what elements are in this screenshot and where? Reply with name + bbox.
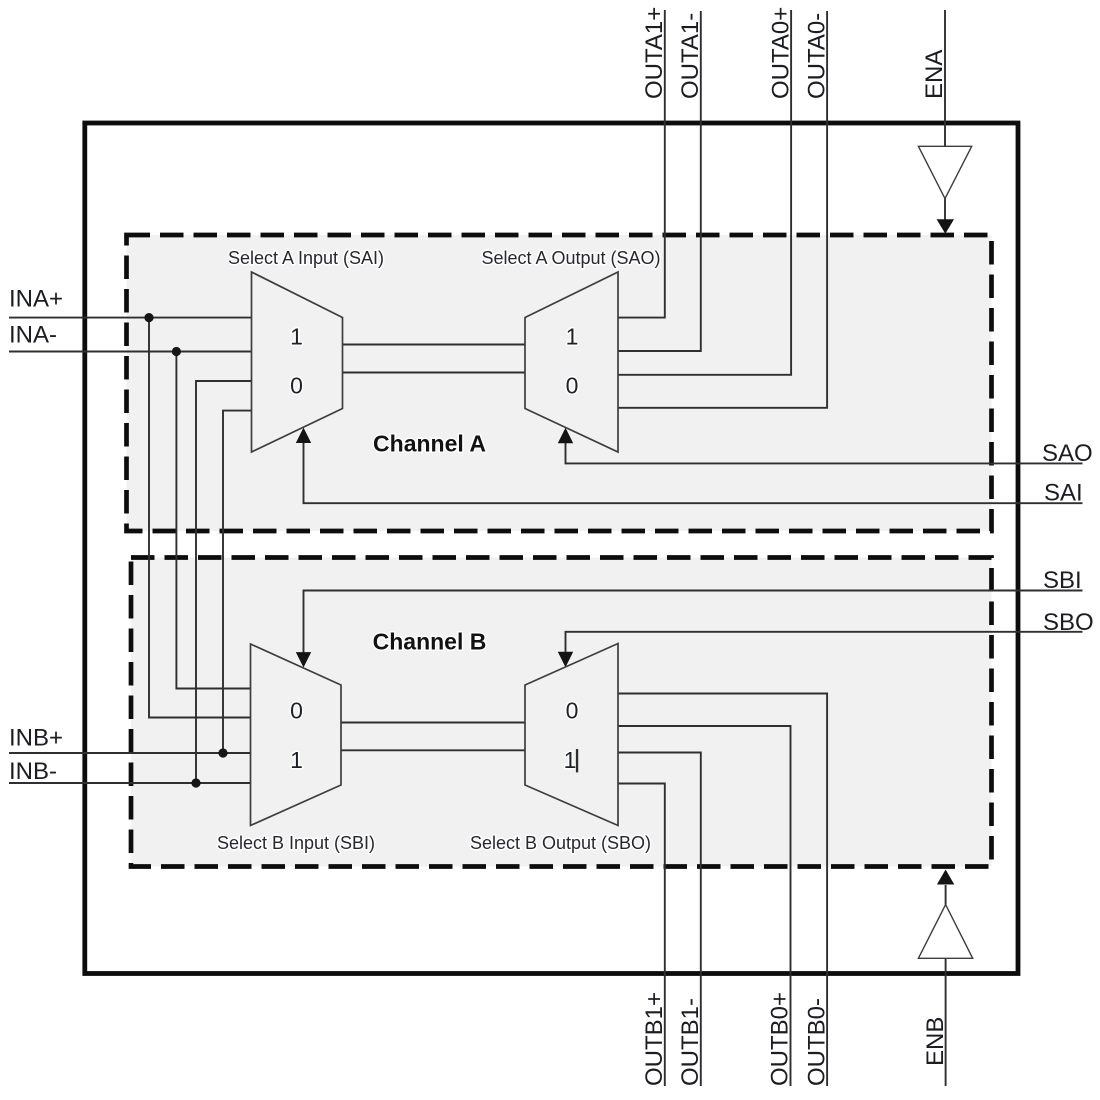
svg-text:1: 1 <box>564 747 577 773</box>
wire INB+ input line <box>9 752 251 754</box>
svg-text:Channel A: Channel A <box>373 431 486 457</box>
arrowhead SBO select <box>558 652 573 667</box>
svg-text:Channel B: Channel B <box>373 629 487 655</box>
outer IC boundary box <box>85 123 1018 974</box>
svg-text:ENA: ENA <box>921 50 948 99</box>
svg-text:1: 1 <box>290 747 303 773</box>
svg-text:SBI: SBI <box>1043 567 1082 594</box>
arrowhead SAO select <box>558 428 573 443</box>
wire ENB line <box>945 958 947 1086</box>
buffer triangle ENA <box>918 146 971 198</box>
Channel A dashed block <box>127 235 992 531</box>
junction dot on INA+ <box>144 313 153 322</box>
arrowhead SBI select <box>296 652 311 667</box>
wire SAO output to OUTA0- <box>618 11 827 408</box>
Channel B dashed block <box>131 558 992 867</box>
svg-text:0: 0 <box>290 698 303 724</box>
svg-text:OUTB1-: OUTB1- <box>677 998 704 1086</box>
wire SAO output to OUTA1- <box>618 11 701 351</box>
wire SBI select line <box>304 591 1083 655</box>
arrowhead ENA <box>937 219 954 234</box>
wire INA- branch down to SBI input 0 <box>176 352 250 689</box>
wire SBO select line <box>566 632 1083 654</box>
svg-text:INB-: INB- <box>9 758 57 785</box>
svg-text:SBO: SBO <box>1043 609 1094 636</box>
wire SBO output to OUTB0- <box>618 694 827 1087</box>
svg-text:OUTB0-: OUTB0- <box>803 998 830 1086</box>
junction dot on INB- <box>191 778 200 787</box>
svg-text:0: 0 <box>566 698 579 724</box>
svg-text:0: 0 <box>290 373 303 399</box>
wire SBO output to OUTB1- <box>618 753 701 1087</box>
svg-text:OUTB0+: OUTB0+ <box>767 992 794 1086</box>
svg-text:Select A Input (SAI): Select A Input (SAI) <box>228 248 384 268</box>
wire SAI select line <box>304 441 1083 503</box>
junction dot on INA- <box>172 347 181 356</box>
wire SBO output to OUTB0+ <box>618 726 791 1086</box>
wire INB- branch up to SAI input 0 <box>196 381 252 783</box>
multiplexer SAO <box>525 272 618 452</box>
multiplexer SBI <box>251 644 342 826</box>
svg-text:INA-: INA- <box>9 322 57 349</box>
wire INA- input line <box>9 351 252 353</box>
wire SAI to SAO pair lower <box>343 372 526 374</box>
svg-text:OUTA1-: OUTA1- <box>677 13 704 99</box>
arrowhead SAI select <box>296 428 311 443</box>
svg-text:0: 0 <box>566 373 579 399</box>
wire ENA line <box>944 10 946 146</box>
wire ENB to Channel B <box>945 885 947 905</box>
svg-text:1: 1 <box>290 324 303 350</box>
multiplexer SAI <box>252 272 343 452</box>
svg-text:SAI: SAI <box>1044 480 1083 507</box>
wire SAI to SAO pair upper <box>343 344 526 346</box>
svg-text:OUTB1+: OUTB1+ <box>641 992 668 1086</box>
wire INB+ branch up to SAI input 0 <box>223 411 252 753</box>
svg-text:INB+: INB+ <box>9 725 63 752</box>
svg-text:Select B Input (SBI): Select B Input (SBI) <box>217 833 375 853</box>
wire ENA to Channel A <box>944 199 946 220</box>
wire SAO select line <box>566 442 1083 464</box>
svg-text:Select B Output (SBO): Select B Output (SBO) <box>470 833 651 853</box>
text cursor artifact beside SBO 1 <box>576 749 578 772</box>
svg-text:SAO: SAO <box>1042 440 1093 467</box>
buffer triangle ENB <box>918 905 972 959</box>
svg-text:Select A Output (SAO): Select A Output (SAO) <box>481 248 660 268</box>
wire INB- input line <box>9 782 251 784</box>
wire SBO output to OUTB1+ <box>618 784 665 1087</box>
wire SAO output to OUTA1+ <box>618 10 665 318</box>
wire SAO output to OUTA0+ <box>618 10 791 375</box>
svg-text:INA+: INA+ <box>9 286 63 313</box>
wire INA+ branch down to SBI input 0 <box>149 318 251 718</box>
svg-text:OUTA1+: OUTA1+ <box>641 7 668 99</box>
junction dot on INB+ <box>218 748 227 757</box>
svg-text:1: 1 <box>566 324 579 350</box>
wire SBI to SBO pair upper <box>341 722 525 724</box>
arrowhead ENB <box>937 870 954 885</box>
svg-text:OUTA0+: OUTA0+ <box>767 7 794 99</box>
multiplexer SBO <box>525 644 618 826</box>
wire SBI to SBO pair lower <box>341 749 525 751</box>
svg-text:OUTA0-: OUTA0- <box>803 13 830 99</box>
wire INA+ input line <box>9 317 252 319</box>
